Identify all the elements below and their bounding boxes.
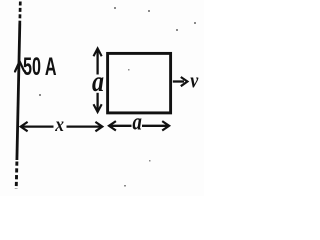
x dimension left arrowhead [21, 122, 28, 131]
svg-text:50 A: 50 A [23, 53, 57, 81]
svg-text:x: x [54, 114, 64, 137]
square loop [108, 53, 171, 113]
a dimension (below loop) left arrowhead [109, 121, 116, 130]
vertical dimension arrow a (lower shaft) [96, 93, 98, 111]
vertical dimension arrow a (upper shaft) [96, 50, 98, 75]
x dimension right shaft [67, 125, 102, 127]
current direction arrowhead on wire [15, 61, 24, 71]
a dimension left shaft [110, 125, 132, 127]
wire solid segment [17, 24, 20, 161]
scan noise specks [39, 7, 196, 187]
a dimension right shaft [142, 125, 167, 127]
wire bottom dashed segment [15, 162, 19, 190]
wire top dashed segment [18, 2, 21, 24]
velocity arrow v [173, 80, 184, 82]
vertical dimension arrow a (bottom arrowhead) [94, 104, 102, 112]
vertical dimension arrow a (top arrowhead) [94, 48, 102, 56]
svg-text:a: a [92, 65, 104, 98]
x dimension right arrowhead [95, 122, 102, 131]
x dimension left shaft [22, 125, 54, 127]
svg-text:v: v [190, 69, 199, 93]
svg-text:a: a [132, 107, 141, 135]
a dimension right arrowhead [162, 121, 169, 130]
